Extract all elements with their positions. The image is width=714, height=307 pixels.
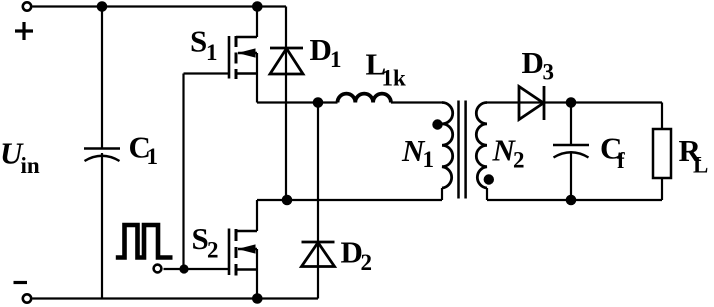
svg-text:in: in [21,153,40,178]
wire Cf bottom [570,152,572,201]
terminal gate drive [154,265,162,273]
svg-text:1: 1 [330,47,342,72]
node Cf top junction [566,97,577,108]
node S2 source junction [252,293,263,304]
transistor S1 (MOSFET) [229,36,257,79]
wire gate lead S2 [164,268,230,270]
transistor S2 (MOSFET) [229,229,257,276]
wire S2 source vertical [256,249,258,299]
square wave gate drive symbol [116,225,173,258]
capacitor Cf [553,145,589,158]
node B (D1 anode / primary return) [282,195,293,206]
resistor RL [653,129,671,178]
wire node A horizontal (S1 source to L1k) [257,101,338,103]
wire Cf top [570,103,572,146]
wire S1 drain vertical [256,7,258,38]
wire S1 source vertical [256,53,258,103]
svg-text:D: D [310,32,332,67]
wire C1 bottom [101,153,103,299]
svg-text:3: 3 [543,60,555,85]
wire D2 branch vertical (bottom rail to node A) [317,103,319,299]
transformer secondary winding N2 [476,103,487,189]
polarity dot primary [432,119,442,129]
transformer core [459,101,466,199]
svg-text:L: L [693,153,708,178]
wire secondary top to D3 to output [487,101,662,103]
wire gate bus vertical [182,74,184,270]
svg-text:2: 2 [207,238,219,263]
node gate junction [179,264,188,273]
svg-text:2: 2 [513,148,525,173]
transformer primary winding N1 [442,103,453,189]
node S1 drain junction [252,1,263,12]
polarity dot secondary [484,174,494,184]
terminal input plus [23,2,31,10]
wire C1 top [101,7,103,149]
node Cf bottom junction [566,195,577,206]
inductor L1k [338,94,391,103]
svg-text:1: 1 [206,40,218,65]
wire output right vertical top [661,103,663,130]
diode D1 [270,48,303,74]
diode D3 [519,86,544,120]
svg-text:1: 1 [423,147,435,172]
diode D2 [302,242,335,267]
wire node B horizontal (S2 drain to primary bottom) [257,199,442,201]
minus sign [14,281,28,284]
wire gate lead S1 [184,72,230,74]
svg-text:2: 2 [361,250,373,275]
plus sign [15,22,33,40]
svg-text:f: f [617,148,625,173]
capacitor C1 [84,149,120,162]
node top C1 junction [97,1,108,12]
wire L1k to primary top [391,101,442,103]
wire secondary bottom to output return [487,199,662,201]
wire D1 branch vertical (top rail to node B) [285,7,287,201]
svg-text:S: S [190,24,207,59]
wire primary bottom drop [441,188,443,200]
wire S2 drain vertical [256,200,258,231]
svg-text:D: D [522,45,544,80]
terminal input minus [23,294,31,302]
node A (L1k / D2 cathode) [313,97,324,108]
wire output right vertical bottom [661,178,663,200]
svg-text:1: 1 [147,144,159,169]
wire bottom rail [33,297,319,299]
wire top rail [33,5,287,7]
svg-text:1k: 1k [382,66,407,91]
wire secondary bottom drop [486,188,488,200]
